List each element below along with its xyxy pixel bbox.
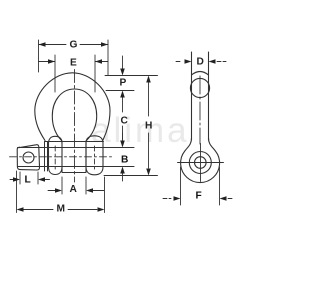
svg-text:C: C	[121, 116, 129, 127]
svg-text:P: P	[120, 78, 127, 89]
svg-text:G: G	[70, 40, 78, 51]
svg-text:A: A	[70, 184, 78, 195]
svg-text:E: E	[70, 58, 77, 69]
svg-text:M: M	[57, 204, 66, 215]
svg-text:L: L	[25, 175, 31, 186]
svg-text:alima: alima	[91, 111, 190, 150]
svg-text:H: H	[145, 121, 152, 132]
svg-text:F: F	[196, 191, 202, 202]
svg-text:D: D	[197, 57, 204, 68]
svg-text:B: B	[121, 155, 128, 166]
